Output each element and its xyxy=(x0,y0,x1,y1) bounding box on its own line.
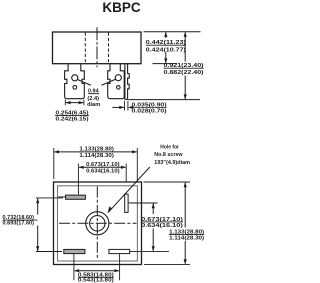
svg-text:Hole for: Hole for xyxy=(160,144,179,150)
svg-text:1.133(28.80): 1.133(28.80) xyxy=(79,146,114,152)
svg-text:0.543(13.80): 0.543(13.80) xyxy=(78,278,114,283)
svg-text:0.424(10.77): 0.424(10.77) xyxy=(146,47,186,53)
svg-text:0.028(0.70): 0.028(0.70) xyxy=(132,109,167,115)
svg-text:diam: diam xyxy=(87,102,100,108)
svg-text:0.882(22.40): 0.882(22.40) xyxy=(164,70,204,76)
svg-text:0.921(23.40): 0.921(23.40) xyxy=(164,63,204,69)
svg-text:0.94: 0.94 xyxy=(88,88,99,94)
svg-text:0.673(17.10): 0.673(17.10) xyxy=(86,162,120,168)
svg-text:0.673(17.10): 0.673(17.10) xyxy=(141,217,183,223)
svg-text:0.634(16.10): 0.634(16.10) xyxy=(86,168,120,174)
svg-text:1.114(28.30): 1.114(28.30) xyxy=(79,153,114,159)
svg-text:0.254(6.45): 0.254(6.45) xyxy=(56,110,89,116)
svg-text:0.242(6.15): 0.242(6.15) xyxy=(56,117,89,123)
svg-text:0.693(17.60): 0.693(17.60) xyxy=(3,220,35,226)
svg-text:1.133(28.80): 1.133(28.80) xyxy=(169,229,204,235)
svg-text:0.634(16.10): 0.634(16.10) xyxy=(141,223,183,229)
svg-text:No.8 screw: No.8 screw xyxy=(154,152,183,158)
svg-text:0.442(11.23): 0.442(11.23) xyxy=(146,40,186,46)
svg-text:0.035(0.90): 0.035(0.90) xyxy=(132,102,167,108)
svg-text:KBPC: KBPC xyxy=(102,0,141,15)
svg-text:1.114(28.30): 1.114(28.30) xyxy=(169,236,204,242)
svg-text:(2.4): (2.4) xyxy=(87,96,99,102)
svg-text:193"(4.9)diam: 193"(4.9)diam xyxy=(154,160,190,166)
